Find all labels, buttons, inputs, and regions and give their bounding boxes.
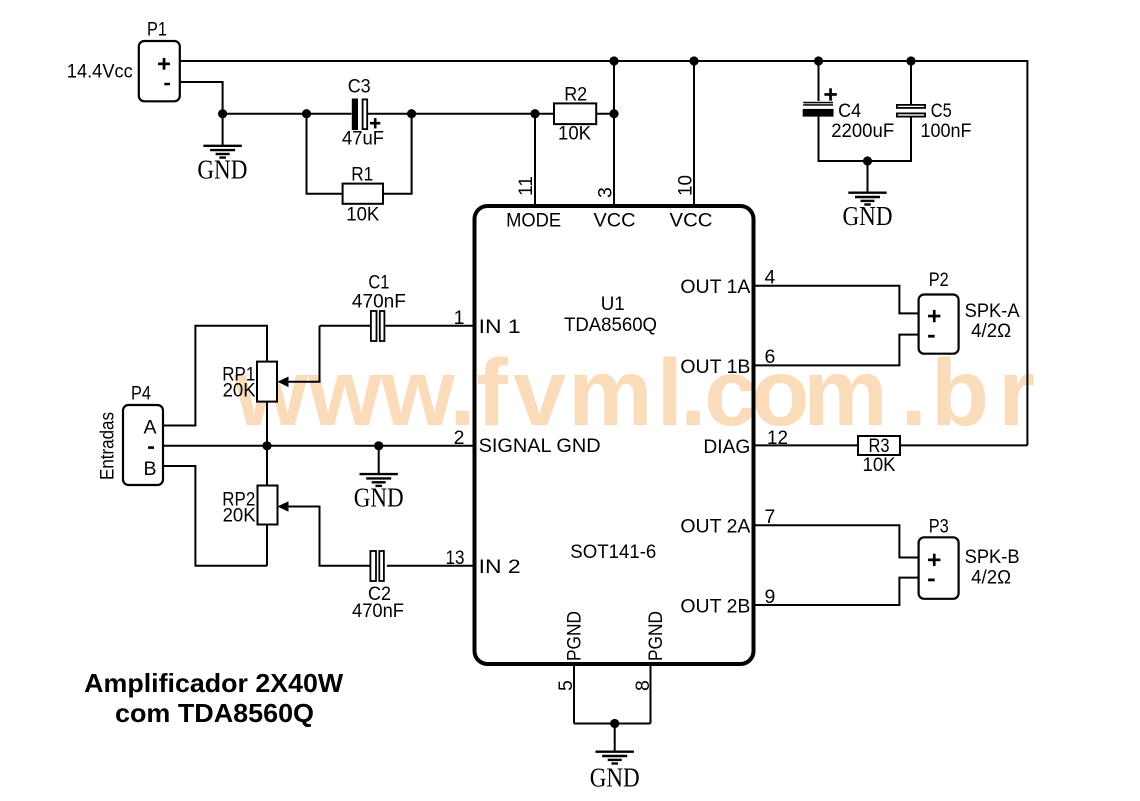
svg-text:10K: 10K: [346, 203, 379, 225]
wire PGND pin 5: [573, 664, 575, 724]
svg-text:C5: C5: [931, 100, 952, 122]
svg-text:GND: GND: [197, 154, 247, 184]
wire PGND pin 8: [650, 664, 652, 724]
svg-text:Amplificador 2X40W: Amplificador 2X40W: [84, 668, 343, 698]
wire bottom GND stub: [614, 724, 616, 752]
wire RP2 bottom lead: [266, 524, 268, 566]
wire DIAG to R3: [754, 444, 858, 446]
svg-text:10: 10: [675, 175, 697, 196]
svg-text:P4: P4: [131, 383, 151, 405]
svg-text:10K: 10K: [863, 454, 896, 476]
ground symbol under C4 C5: [848, 193, 886, 205]
svg-text:PGND: PGND: [564, 611, 586, 661]
svg-text:470nF: 470nF: [352, 600, 404, 622]
svg-text:20K: 20K: [223, 379, 256, 401]
wire C5 bottom lead to GND node: [868, 118, 912, 162]
svg-text:SPK-A: SPK-A: [965, 300, 1020, 322]
wire P1 minus to GND: [180, 82, 223, 146]
capacitor C4 polarized: [803, 88, 837, 116]
connector P1 body: [139, 41, 180, 101]
svg-text:IN 1: IN 1: [479, 316, 521, 338]
wire C5 top lead: [910, 61, 912, 104]
wire IN1 line C1 to IC pin 1: [385, 325, 474, 327]
wire PGND bottom link: [574, 723, 651, 725]
wire R2 right to pin3 vertical: [596, 113, 614, 115]
wire OUT 2A to P3 plus: [754, 525, 919, 557]
svg-text:2: 2: [454, 427, 465, 449]
svg-text:OUT 1B: OUT 1B: [680, 356, 750, 378]
svg-text:SIGNAL GND: SIGNAL GND: [479, 435, 601, 457]
svg-text:8: 8: [632, 680, 654, 691]
svg-text:5: 5: [555, 680, 577, 691]
svg-text:PGND: PGND: [645, 611, 667, 661]
wire GND stub below C4/C5: [867, 161, 869, 193]
capacitor C1: [371, 311, 385, 341]
wire R1 left branch: [307, 114, 343, 194]
svg-text:IN 2: IN 2: [479, 556, 521, 578]
potentiometer RP2: [258, 486, 289, 525]
wire P4 A loop to RP1 top: [163, 326, 267, 426]
wire OUT 2B to P3 minus: [754, 578, 919, 605]
svg-text:P1: P1: [147, 19, 167, 41]
ground symbol bottom: [596, 752, 634, 764]
capacitor C3 polarized: [352, 99, 381, 131]
svg-text:U1: U1: [601, 293, 625, 315]
svg-text:2200uF: 2200uF: [831, 120, 894, 142]
svg-text:R2: R2: [564, 84, 587, 106]
wire GND stub below signal gnd: [378, 446, 380, 474]
wire VCC pin 3 vertical: [613, 61, 615, 206]
wire RP2 wiper branch: [287, 507, 370, 566]
svg-text:9: 9: [765, 586, 776, 608]
wire SIGNAL GND line P4 to IC pin 2: [163, 445, 474, 447]
capacitor C2: [370, 551, 384, 581]
svg-text:11: 11: [515, 176, 537, 196]
svg-text:OUT 1A: OUT 1A: [680, 276, 750, 298]
capacitor C5: [897, 105, 925, 117]
svg-text:SPK-B: SPK-B: [965, 546, 1020, 568]
connector P4 body: [123, 405, 163, 485]
svg-text:R1: R1: [351, 163, 373, 185]
svg-text:4/2Ω: 4/2Ω: [971, 567, 1011, 589]
wire OUT 1A to P2 plus: [754, 286, 919, 314]
wire RP1 bottom to RP2 top: [266, 402, 268, 486]
wire OUT 1B to P2 minus: [754, 335, 919, 366]
potentiometer RP1: [257, 362, 289, 402]
svg-text:470nF: 470nF: [352, 290, 406, 312]
svg-text:47uF: 47uF: [342, 128, 384, 150]
svg-text:12: 12: [767, 427, 788, 449]
svg-text:OUT 2A: OUT 2A: [680, 516, 750, 538]
wire MODE pin 11 vertical: [534, 114, 536, 206]
wire minus rail y=113.7 C3 to R2: [368, 113, 555, 115]
wire P4 B loop to IN2 line: [163, 466, 267, 566]
svg-text:OUT 2B: OUT 2B: [680, 595, 750, 617]
svg-text:B: B: [143, 458, 156, 480]
svg-text:MODE: MODE: [506, 209, 561, 231]
svg-text:SOT141-6: SOT141-6: [570, 541, 656, 563]
wire VCC pin 10 vertical: [693, 61, 695, 206]
svg-text:GND: GND: [354, 483, 404, 513]
wire minus rail y=113.7 left of C3: [223, 113, 352, 115]
svg-text:14.4Vcc: 14.4Vcc: [67, 61, 133, 83]
svg-text:13: 13: [446, 547, 465, 569]
svg-text:DIAG: DIAG: [703, 436, 750, 458]
wire C4 bottom lead to GND node: [819, 117, 868, 161]
svg-text:P3: P3: [929, 515, 949, 537]
resistor R1: [343, 184, 383, 204]
wire C1 left lead: [320, 325, 371, 327]
ground symbol under signal gnd: [360, 474, 398, 486]
svg-text:www.fvml.com.br: www.fvml.com.br: [233, 340, 1035, 446]
svg-text:10K: 10K: [558, 123, 591, 145]
resistor R2: [554, 103, 596, 124]
wire R3 to right rail: [900, 444, 1027, 446]
svg-text:4/2Ω: 4/2Ω: [971, 320, 1011, 342]
svg-text:P2: P2: [929, 269, 949, 291]
connector P2 body: [919, 295, 959, 354]
svg-text:com TDA8560Q: com TDA8560Q: [115, 698, 314, 728]
connector P3 body: [919, 537, 959, 599]
wire C2 right lead to IC pin 13: [387, 565, 474, 567]
svg-text:GND: GND: [590, 762, 640, 792]
svg-text:20K: 20K: [223, 505, 256, 527]
svg-text:100nF: 100nF: [921, 120, 972, 142]
resistor R3: [858, 436, 900, 455]
svg-text:TDA8560Q: TDA8560Q: [564, 314, 657, 336]
IC U1 TDA8560Q body: [475, 206, 754, 664]
svg-text:6: 6: [765, 346, 776, 368]
svg-text:A: A: [143, 417, 156, 439]
ground symbol under P1: [203, 146, 241, 158]
svg-text:Entradas: Entradas: [97, 412, 119, 480]
wire VCC top rail from P1+ to right edge down to DIAG: [180, 61, 1027, 445]
wire R1 right branch: [383, 114, 412, 194]
svg-text:GND: GND: [843, 201, 893, 231]
svg-text:C3: C3: [348, 76, 371, 98]
svg-text:C4: C4: [838, 100, 861, 122]
svg-text:7: 7: [765, 506, 776, 528]
wire C1 branch down to RP1 wiper: [287, 326, 320, 382]
svg-text:VCC: VCC: [594, 209, 636, 231]
wire C4 top lead: [818, 61, 820, 101]
svg-text:3: 3: [595, 187, 617, 198]
svg-text:4: 4: [765, 267, 776, 289]
svg-text:VCC: VCC: [670, 209, 713, 231]
svg-text:1: 1: [454, 307, 465, 329]
